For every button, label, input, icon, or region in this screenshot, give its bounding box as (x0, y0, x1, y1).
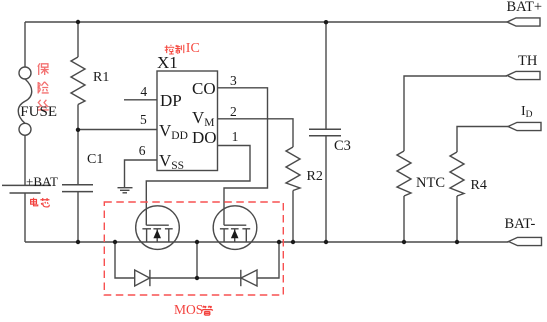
wire left vertical from top rail to fuse (24, 22, 26, 67)
node diode right (277, 240, 281, 244)
label 控制 (drawn glyphs, of 控制IC) (165, 45, 184, 54)
node C3 top (324, 20, 328, 24)
resistor R1 (71, 22, 85, 130)
wire pin 6 VSS to ground (125, 160, 158, 187)
diode D1 (115, 242, 197, 286)
label MOS (of MOS管) (174, 302, 203, 318)
pin number 1 (232, 129, 239, 145)
terminal TH (507, 71, 540, 79)
wire pin 5 VDD (78, 129, 157, 131)
label R2 (307, 169, 323, 185)
node diode left (113, 240, 117, 244)
transistor Q1 MOSFET (136, 206, 180, 250)
node diode mid (195, 276, 199, 280)
pin number 2 (230, 104, 237, 120)
node NTC bottom (402, 240, 406, 244)
pin number 6 (139, 143, 146, 159)
label 保险丝 (drawn glyphs) (37, 63, 48, 110)
node R2 bottom (291, 240, 295, 244)
pin label VDD (159, 121, 188, 142)
pin label VM (192, 108, 215, 129)
ground (118, 188, 133, 193)
resistor R2 (286, 147, 300, 242)
node VDD junction (76, 128, 80, 132)
wire pin 4 DP stub (124, 99, 157, 101)
capacitor C1 (62, 130, 93, 243)
label NTC (416, 175, 445, 192)
label BAT- (505, 216, 536, 233)
op-amp IC X1 box (157, 71, 218, 171)
node R4 bottom (455, 240, 459, 244)
wire fuse to battery (24, 135, 26, 185)
resistor R4 (450, 127, 508, 243)
label X1 (157, 53, 178, 73)
pin label VSS (159, 151, 184, 172)
label R4 (471, 178, 487, 194)
pin number 3 (230, 73, 237, 89)
label +BAT (26, 174, 58, 190)
node C3 bottom (324, 240, 328, 244)
terminal ID (508, 122, 541, 130)
wire top rail BAT+ (25, 21, 507, 23)
pin number 5 (140, 112, 147, 128)
wire diode mid junction to rail (196, 242, 198, 278)
wire pin 2 VM to R2 (218, 119, 294, 147)
label ID (521, 104, 533, 120)
battery BT1 (cell) (2, 185, 51, 193)
fuse FUSE (18, 67, 32, 135)
label BAT+ (507, 0, 543, 16)
terminal BAT- (509, 237, 542, 245)
label TH (518, 53, 537, 70)
label FUSE (20, 104, 57, 121)
label C1 (87, 152, 103, 168)
MOS dashed red box (104, 202, 283, 295)
node C1 bottom (76, 240, 80, 244)
label R1 (93, 70, 109, 86)
label 电芯 (drawn glyphs) (31, 198, 50, 207)
label IC (of 控制IC) (186, 41, 200, 57)
label C3 (334, 138, 351, 155)
wire pin 3 CO to Q2 gate (218, 88, 268, 225)
wire battery to bottom rail (24, 193, 26, 242)
node MOSFET mid (195, 240, 199, 244)
wire pin 1 DO to Q1 gate (146, 146, 250, 226)
terminal BAT+ (507, 18, 540, 26)
wire bottom rail BAT- (25, 241, 509, 243)
transistor Q2 MOSFET (213, 206, 257, 250)
pin label DP (160, 91, 182, 111)
pin label CO (192, 79, 216, 99)
pin label DO (192, 128, 217, 148)
node R1 top (76, 20, 80, 24)
resistor NTC (397, 76, 507, 242)
diode D2 (197, 242, 279, 286)
capacitor C3 (309, 22, 341, 242)
node dots (76, 20, 459, 280)
label 管 (drawn glyph, of MOS管) (202, 306, 212, 315)
pin number 4 (140, 84, 147, 100)
